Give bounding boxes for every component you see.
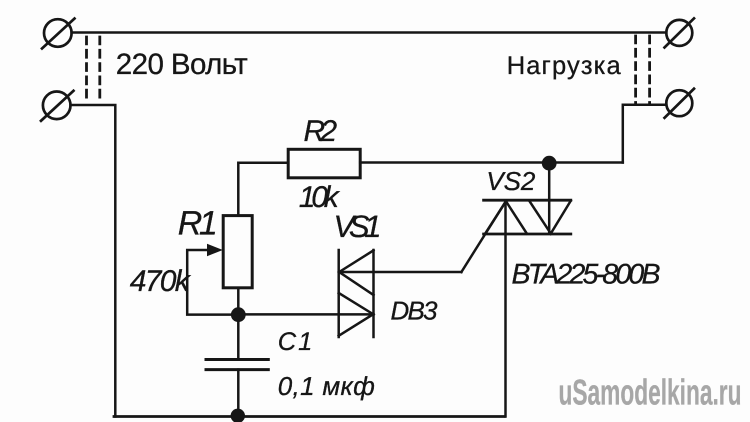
- svg-text:BTA225-800B: BTA225-800B: [512, 258, 661, 290]
- svg-text:R2: R2: [304, 115, 338, 148]
- svg-text:220 Вольт: 220 Вольт: [116, 48, 248, 81]
- svg-text:uSamodelkina.ru: uSamodelkina.ru: [559, 372, 742, 413]
- svg-text:VS1: VS1: [334, 209, 382, 244]
- svg-text:VS2: VS2: [486, 166, 536, 196]
- svg-text:DB3: DB3: [391, 296, 439, 326]
- svg-text:Нагрузка: Нагрузка: [507, 52, 622, 80]
- svg-text:470k: 470k: [130, 265, 192, 298]
- svg-text:0,1 мкф: 0,1 мкф: [278, 371, 375, 401]
- svg-text:C1: C1: [278, 328, 313, 356]
- svg-text:R1: R1: [178, 205, 218, 243]
